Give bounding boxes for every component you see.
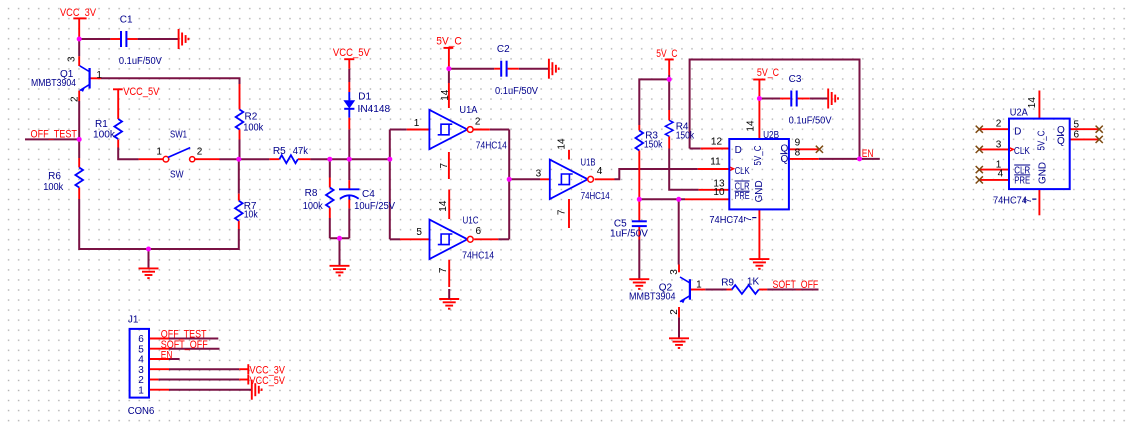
svg-text:R1: R1 (95, 119, 108, 130)
svg-text:4: 4 (597, 166, 603, 177)
svg-text:SW1: SW1 (170, 130, 187, 141)
svg-text:MMBT3904: MMBT3904 (629, 291, 676, 302)
svg-text:1: 1 (138, 385, 144, 396)
svg-text:2: 2 (197, 147, 203, 158)
svg-text:R8: R8 (305, 188, 318, 199)
svg-text:74HC74: 74HC74 (709, 215, 743, 226)
svg-text:OFF_TEST: OFF_TEST (31, 129, 78, 141)
svg-text:100k: 100k (303, 201, 324, 212)
svg-text:1: 1 (696, 280, 702, 291)
svg-text:IN4148: IN4148 (358, 104, 391, 115)
svg-text:5: 5 (416, 227, 422, 238)
svg-text:6: 6 (476, 226, 482, 237)
svg-text:5V_C: 5V_C (753, 146, 764, 166)
svg-text:2: 2 (996, 119, 1002, 130)
svg-text:Q: Q (781, 144, 789, 155)
svg-text:150k: 150k (644, 140, 663, 151)
svg-text:12: 12 (711, 136, 723, 147)
svg-text:14: 14 (440, 89, 451, 101)
svg-text:1: 1 (96, 70, 102, 81)
svg-text:EN: EN (862, 148, 874, 160)
svg-text:3: 3 (996, 139, 1002, 150)
svg-text:0.1uF/50V: 0.1uF/50V (119, 56, 162, 67)
svg-text:CLK: CLK (1014, 146, 1030, 157)
svg-text:SOFT_OFF: SOFT_OFF (773, 279, 819, 291)
svg-text:100k: 100k (43, 182, 64, 193)
svg-text:R9: R9 (721, 277, 734, 288)
svg-text:100k: 100k (243, 123, 264, 134)
svg-text:7: 7 (438, 267, 449, 273)
svg-text:1: 1 (156, 147, 162, 158)
svg-text:11: 11 (710, 156, 721, 167)
svg-text:10: 10 (713, 187, 725, 198)
svg-text:Q: Q (781, 154, 789, 165)
svg-text:C2: C2 (497, 44, 510, 55)
svg-text:VCC_5V: VCC_5V (333, 47, 371, 59)
svg-text:2: 2 (669, 309, 680, 315)
svg-text:14: 14 (557, 138, 568, 150)
svg-text:1uF/50V: 1uF/50V (610, 228, 648, 239)
svg-text:1K: 1K (747, 276, 760, 287)
svg-text:U1A: U1A (459, 105, 477, 116)
svg-text:C4: C4 (362, 189, 375, 200)
svg-text:GND: GND (1037, 162, 1048, 184)
svg-text:0.1uF/50V: 0.1uF/50V (495, 86, 538, 97)
svg-text:R5: R5 (273, 146, 286, 157)
svg-text:74HC14: 74HC14 (476, 140, 507, 151)
svg-text:74HC14: 74HC14 (581, 191, 610, 202)
svg-text:0.1uF/50V: 0.1uF/50V (789, 115, 832, 126)
svg-text:D1: D1 (358, 92, 371, 103)
svg-text:U1C: U1C (463, 216, 479, 227)
svg-text:2: 2 (475, 117, 481, 128)
svg-text:5V_C: 5V_C (656, 48, 677, 60)
svg-text:10k: 10k (244, 210, 259, 221)
svg-text:CON6: CON6 (128, 406, 155, 417)
svg-text:U2B: U2B (763, 130, 779, 141)
svg-text:14: 14 (1027, 97, 1038, 109)
svg-text:D: D (735, 145, 742, 156)
svg-text:4: 4 (998, 169, 1004, 180)
svg-text:Q: Q (1057, 136, 1065, 147)
svg-text:J1: J1 (128, 314, 139, 325)
svg-text:VCC_3V: VCC_3V (60, 7, 97, 19)
svg-text:7: 7 (439, 163, 450, 169)
svg-text:Q: Q (1057, 125, 1065, 136)
svg-text:3: 3 (536, 169, 542, 180)
svg-text:PRE: PRE (735, 191, 750, 202)
svg-text:150k: 150k (676, 130, 695, 141)
svg-text:2: 2 (70, 96, 81, 102)
svg-text:EN: EN (161, 350, 173, 362)
svg-text:47k: 47k (293, 146, 309, 157)
svg-text:8: 8 (795, 147, 801, 158)
svg-text:5V_C: 5V_C (436, 36, 461, 48)
svg-text:3: 3 (669, 269, 680, 275)
svg-text:100k: 100k (93, 130, 116, 141)
svg-text:CLK: CLK (735, 166, 750, 177)
svg-text:6: 6 (1074, 130, 1080, 141)
svg-text:PRE: PRE (1014, 175, 1030, 186)
svg-text:VCC_5V: VCC_5V (123, 86, 160, 98)
svg-text:GND: GND (754, 180, 765, 202)
svg-text:R6: R6 (48, 171, 61, 182)
svg-text:U2A: U2A (1010, 108, 1028, 119)
svg-text:7: 7 (1023, 197, 1034, 203)
svg-text:14: 14 (438, 200, 449, 212)
svg-text:D: D (1014, 127, 1021, 138)
svg-text:7: 7 (557, 209, 568, 215)
svg-text:MMBT3904: MMBT3904 (31, 78, 76, 89)
svg-text:7: 7 (743, 216, 754, 222)
svg-text:R2: R2 (245, 111, 258, 122)
svg-text:C3: C3 (789, 74, 802, 85)
svg-text:5V_C: 5V_C (1036, 131, 1047, 151)
svg-text:14: 14 (746, 120, 757, 132)
svg-text:74HC14: 74HC14 (462, 251, 494, 262)
svg-text:1: 1 (414, 118, 420, 129)
svg-text:5V_C: 5V_C (757, 67, 779, 79)
svg-text:U1B: U1B (581, 157, 596, 168)
svg-text:VCC_5V: VCC_5V (250, 375, 286, 387)
svg-text:10uF/25V: 10uF/25V (354, 201, 395, 212)
svg-text:3: 3 (67, 56, 78, 62)
svg-text:SW: SW (170, 170, 184, 181)
svg-text:C1: C1 (120, 15, 133, 26)
